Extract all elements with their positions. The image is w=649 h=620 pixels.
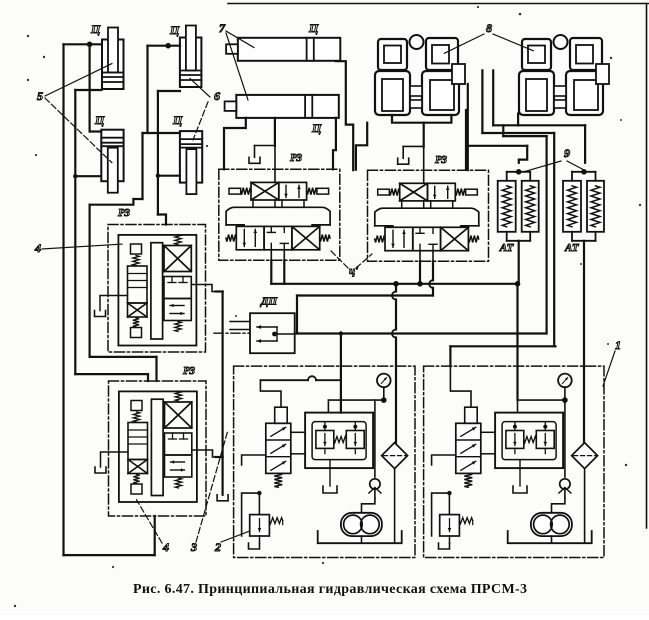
svg-text:6: 6 [214, 89, 220, 103]
svg-text:РЗ: РЗ [183, 365, 195, 377]
svg-text:Ц: Ц [172, 113, 183, 127]
svg-text:4: 4 [34, 241, 41, 255]
svg-text:Ц: Ц [169, 23, 180, 37]
svg-text:РЗ: РЗ [435, 154, 447, 166]
svg-text:1: 1 [615, 338, 621, 352]
svg-text:5: 5 [37, 89, 43, 103]
svg-text:4: 4 [162, 540, 169, 554]
svg-text:Ц: Ц [308, 21, 319, 35]
svg-text:Ц: Ц [90, 22, 101, 36]
svg-text:РЗ: РЗ [118, 207, 130, 219]
svg-text:Ц: Ц [94, 113, 105, 127]
svg-text:8: 8 [486, 21, 492, 35]
svg-text:Рис. 6.47. Принципиальная гидр: Рис. 6.47. Принципиальная гидравлическая… [133, 582, 527, 597]
svg-text:ДП: ДП [260, 296, 278, 308]
svg-text:АТ: АТ [564, 242, 580, 254]
svg-text:АТ: АТ [499, 242, 515, 254]
svg-text:РЗ: РЗ [290, 152, 302, 164]
svg-text:Ц: Ц [311, 121, 322, 135]
svg-text:9: 9 [564, 146, 570, 160]
svg-text:7: 7 [219, 21, 226, 35]
svg-text:2: 2 [214, 540, 221, 554]
